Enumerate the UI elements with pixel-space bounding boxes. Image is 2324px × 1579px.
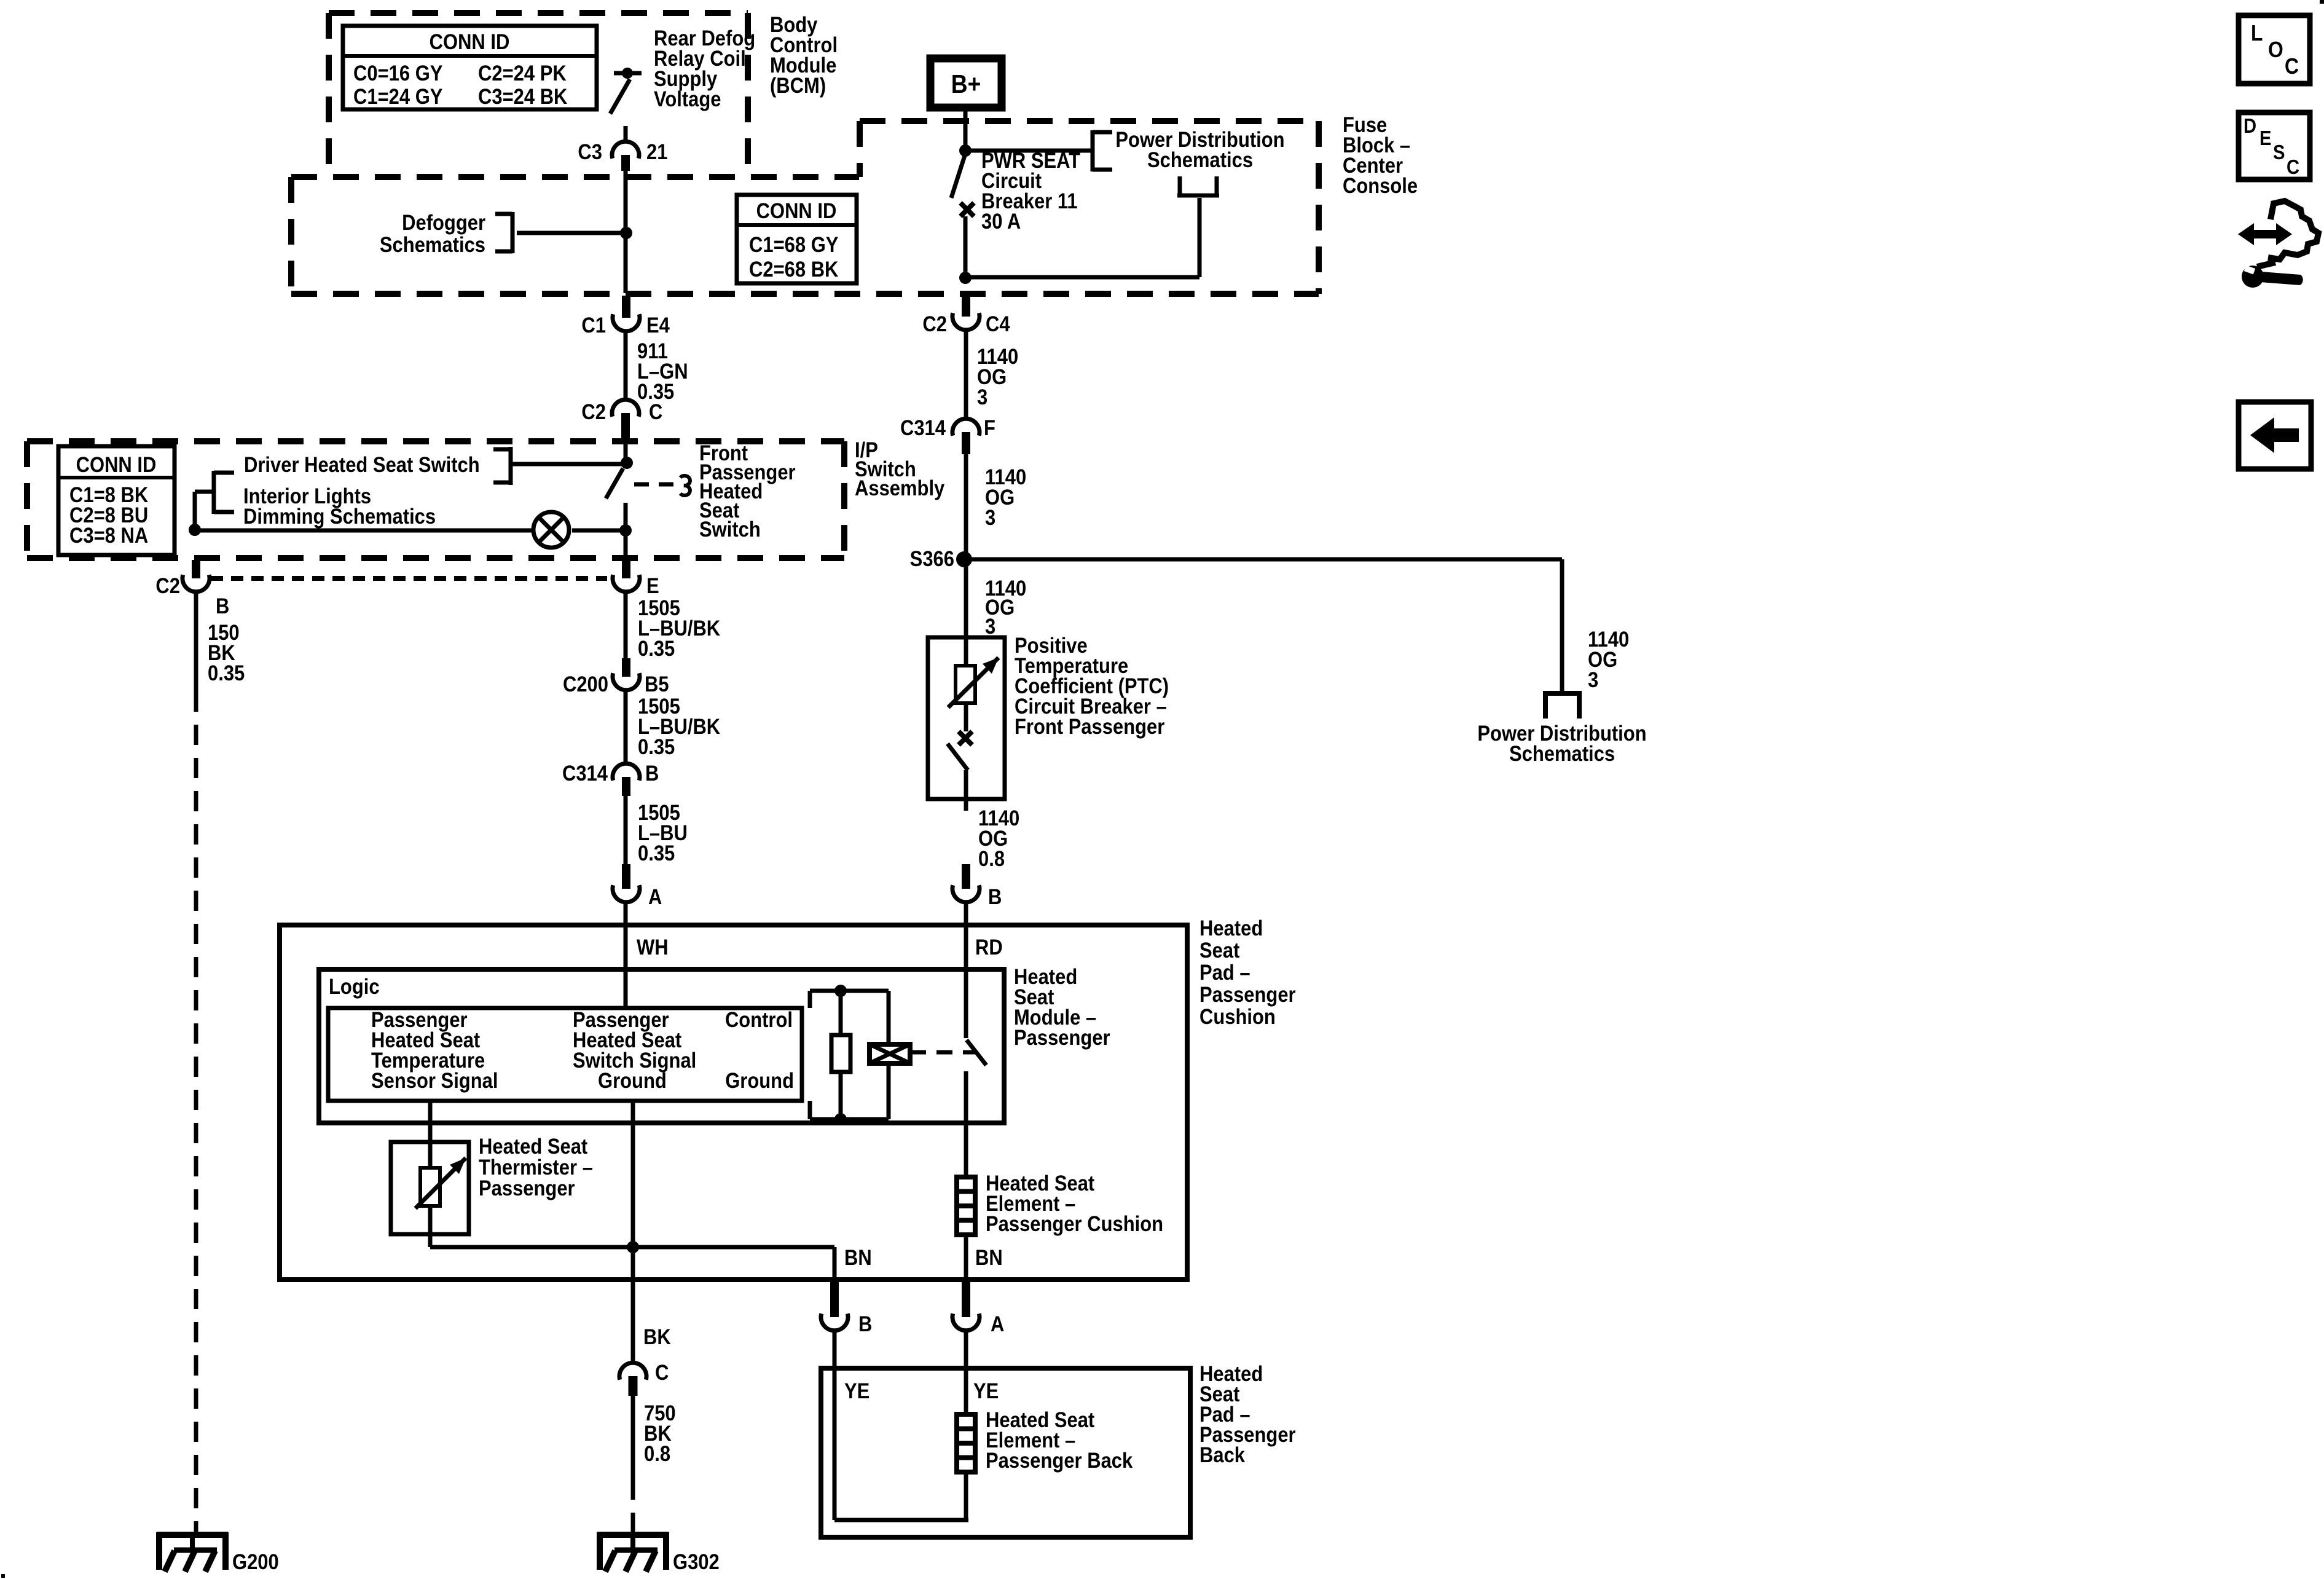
splice S366	[956, 551, 972, 567]
PTC thermistor symbol	[956, 666, 975, 703]
connector C200 pin B5	[622, 658, 630, 677]
wire YE left down	[833, 1369, 837, 1520]
svg-text:Sensor Signal: Sensor Signal	[371, 1069, 498, 1093]
DESC icon box	[2239, 112, 2310, 179]
interior lights dimming bracket	[212, 471, 216, 514]
connector pin B (pad back feed)	[830, 1282, 839, 1317]
heated seat element - passenger cushion	[957, 1177, 975, 1235]
connector C314 pin F	[952, 419, 979, 436]
wire A to pad box	[624, 903, 628, 925]
svg-text:C2=68 BK: C2=68 BK	[749, 258, 839, 282]
connector pin A heated seat module	[622, 864, 630, 889]
svg-text:C1: C1	[581, 313, 606, 337]
svg-text:B: B	[216, 594, 229, 618]
wire B to pad box	[964, 903, 968, 925]
svg-text:G200: G200	[232, 1550, 279, 1574]
svg-text:E: E	[2259, 127, 2271, 149]
heated seat element - passenger back	[957, 1414, 975, 1472]
svg-text:RD: RD	[975, 935, 1003, 959]
wire B down to pad back box	[833, 1331, 837, 1369]
svg-text:3: 3	[985, 506, 995, 530]
connector view icon outline	[2268, 201, 2318, 259]
driver heated seat switch bracket	[509, 447, 513, 485]
wire BN loop to connector B	[633, 1245, 834, 1250]
svg-text:Back: Back	[1199, 1443, 1246, 1467]
connector C2 pin C4 (fuse block)	[962, 296, 970, 317]
wire 1505 first segment	[624, 593, 628, 658]
page corner mark bottom left	[1, 1574, 5, 1578]
svg-text:C2: C2	[922, 312, 947, 336]
svg-text:C2: C2	[581, 400, 606, 424]
svg-text:C: C	[2285, 54, 2299, 79]
dotted harness line C2-to-E	[211, 576, 607, 581]
wire thermistor to ground junction	[430, 1245, 633, 1250]
heated seat thermister box	[391, 1142, 469, 1234]
svg-text:0.8: 0.8	[644, 1442, 670, 1466]
svg-text:CONN ID: CONN ID	[430, 30, 510, 54]
connector C2 pin C	[612, 400, 639, 417]
node resistor-ground	[834, 1113, 847, 1125]
Heated Seat Pad - Passenger Cushion box	[280, 925, 1187, 1280]
svg-text:E: E	[646, 574, 659, 598]
svg-text:C314: C314	[900, 416, 946, 440]
svg-text:G302: G302	[673, 1550, 720, 1574]
node breaker output	[959, 272, 972, 284]
svg-text:D: D	[2244, 114, 2256, 137]
svg-text:C3=24 BK: C3=24 BK	[478, 85, 568, 109]
svg-text:0.35: 0.35	[638, 841, 675, 865]
node thermistor-ground junction	[627, 1241, 639, 1253]
svg-text:O: O	[2268, 37, 2283, 62]
wire sensor signal to thermistor	[428, 1101, 433, 1142]
svg-text:Control: Control	[725, 1008, 793, 1032]
svg-text:C: C	[649, 400, 662, 424]
wire module switch out	[964, 1071, 968, 1177]
B+ battery feed box	[930, 58, 1002, 108]
front passenger heated seat switch blade	[606, 468, 623, 498]
connector pin C ground wire	[631, 1282, 635, 1364]
wire 1505 L-BU	[624, 796, 628, 864]
wire 1140 OG 3 to C314	[964, 331, 968, 417]
wire A down to element back	[964, 1331, 968, 1414]
svg-text:Passenger: Passenger	[1014, 1026, 1110, 1050]
wire bracket to dimmer junction	[195, 490, 214, 494]
CONN ID table - I/P switch	[58, 446, 175, 555]
wire thermistor to contact	[964, 703, 968, 731]
connector view icon wrench	[2242, 266, 2264, 288]
Body Control Module (BCM) dashed box	[329, 10, 748, 16]
svg-text:0.35: 0.35	[208, 661, 245, 685]
wire 1505 second segment	[624, 691, 628, 762]
svg-text:Ground: Ground	[598, 1069, 667, 1093]
wire back loop bottom	[834, 1518, 968, 1522]
ground G200	[157, 1532, 228, 1538]
wire S366 down 1140 OG 3	[964, 559, 968, 637]
power distribution schematics bracket right	[1543, 691, 1582, 696]
BCM / Defogger box shared bottom-top dashed line	[291, 174, 859, 180]
PTC switch blade	[948, 744, 968, 770]
LOC icon box	[2239, 15, 2310, 84]
svg-text:Defogger: Defogger	[402, 211, 485, 235]
svg-text:Cushion: Cushion	[1199, 1005, 1276, 1029]
CONN ID table - BCM C1/C2 68-way	[737, 195, 857, 283]
svg-text:B5: B5	[645, 672, 669, 696]
svg-text:S: S	[2273, 141, 2285, 163]
indicator lamp	[533, 512, 569, 548]
svg-text:C1=68 GY: C1=68 GY	[749, 233, 838, 257]
svg-text:L: L	[2251, 21, 2263, 45]
connector pin A (pad back return)	[962, 1282, 970, 1317]
svg-text:0.35: 0.35	[638, 637, 675, 661]
PTC circuit breaker box	[928, 637, 1005, 799]
Heated Seat Pad - Passenger Back box	[821, 1368, 1190, 1537]
svg-text:0.35: 0.35	[638, 735, 675, 759]
module switch blade	[967, 1040, 986, 1065]
power distribution bracket	[1091, 130, 1095, 171]
svg-text:Passenger Cushion: Passenger Cushion	[986, 1212, 1163, 1236]
svg-text:BN: BN	[975, 1246, 1003, 1270]
svg-text:Pad –: Pad –	[1199, 961, 1250, 985]
wire element to pad bottom	[964, 1235, 968, 1282]
svg-text:C0=16 GY: C0=16 GY	[353, 61, 442, 85]
connector C314 pin B	[613, 763, 640, 781]
wire switch feed from driver bracket	[512, 462, 626, 467]
svg-text:30 A: 30 A	[981, 210, 1021, 234]
relay mechanical link dashes	[910, 1050, 977, 1055]
svg-text:21: 21	[646, 140, 667, 164]
svg-text:Logic: Logic	[329, 975, 380, 999]
svg-text:C200: C200	[563, 672, 608, 696]
svg-text:(BCM): (BCM)	[770, 74, 826, 98]
svg-text:BK: BK	[643, 1325, 671, 1349]
svg-text:CONN ID: CONN ID	[76, 453, 157, 477]
svg-text:C: C	[655, 1361, 669, 1385]
wire control loop top	[808, 991, 812, 1008]
svg-text:C2=24 PK: C2=24 PK	[478, 61, 567, 85]
wire to power distribution bracket	[965, 149, 1091, 153]
svg-text:C3=8 NA: C3=8 NA	[69, 524, 148, 548]
relay resistor	[839, 991, 843, 1035]
svg-text:Console: Console	[1343, 174, 1418, 198]
svg-text:CONN ID: CONN ID	[756, 199, 837, 223]
svg-text:Dimming Schematics: Dimming Schematics	[243, 505, 436, 529]
svg-text:BN: BN	[844, 1246, 872, 1270]
Heated Seat Module logic box	[319, 969, 1004, 1123]
connector view icon arrow	[2238, 223, 2292, 245]
wire WH into logic	[624, 925, 628, 1008]
node switch pivot	[621, 457, 633, 469]
wire to defogger schematics	[517, 231, 624, 235]
svg-text:3: 3	[977, 385, 987, 409]
wire junction to C1	[624, 233, 628, 293]
svg-text:YE: YE	[973, 1379, 999, 1403]
svg-text:B: B	[645, 762, 659, 786]
heated seat thermister symbol	[428, 1142, 433, 1168]
back arrow icon box	[2239, 402, 2311, 469]
connector pin E (I/P bottom)	[622, 560, 630, 578]
svg-text:Front Passenger: Front Passenger	[1015, 715, 1164, 739]
node dimmer junction	[189, 524, 201, 536]
wire to connector E	[624, 530, 628, 556]
svg-text:Switch: Switch	[699, 518, 761, 541]
svg-text:S366: S366	[910, 547, 954, 571]
svg-text:E4: E4	[646, 313, 670, 337]
wire dimmer to lamp	[197, 529, 534, 533]
svg-text:A: A	[648, 885, 662, 909]
Defogger and Fuse block shared bottom dashed line	[291, 291, 1319, 297]
mechanical link pointer	[680, 476, 690, 495]
svg-text:Seat: Seat	[1199, 939, 1239, 963]
wire PTC out	[964, 770, 968, 811]
wire element back to loop	[964, 1472, 968, 1520]
svg-text:Voltage: Voltage	[654, 87, 721, 111]
wire S366 branch right	[964, 557, 1562, 562]
wire breaker output loop	[965, 275, 1199, 280]
svg-text:Schematics: Schematics	[1147, 148, 1253, 172]
wire 750 BK dashed	[631, 1479, 635, 1535]
svg-text:Assembly: Assembly	[855, 476, 945, 500]
PWR SEAT circuit breaker 11 switch	[951, 154, 965, 198]
svg-text:3: 3	[1588, 668, 1598, 692]
wire B+ to breaker	[964, 108, 968, 151]
svg-text:A: A	[991, 1312, 1004, 1336]
mechanical link dashes	[634, 482, 676, 487]
svg-text:B+: B+	[951, 70, 981, 99]
svg-text:C3: C3	[578, 140, 602, 164]
wire heated seat switch feed	[624, 441, 628, 459]
svg-text:YE: YE	[844, 1379, 870, 1403]
wire RD into module	[964, 925, 968, 1038]
node defogger junction	[620, 227, 632, 239]
svg-text:F: F	[984, 416, 995, 440]
connector C3 pin 21 (BCM)	[612, 141, 639, 159]
wire 150 BK dashed to G200	[194, 691, 198, 1535]
CONN ID table - BCM connectors	[343, 26, 597, 109]
svg-text:Driver Heated Seat Switch: Driver Heated Seat Switch	[244, 453, 480, 477]
Fuse Block - Center Console dashed box	[860, 118, 1319, 124]
wire 150 BK solid part	[194, 593, 198, 691]
power distribution return bracket	[1178, 176, 1182, 195]
Defogger section dashed box left edge	[288, 177, 294, 294]
wire BCM switch to C3	[624, 126, 628, 141]
svg-text:Ground: Ground	[725, 1069, 794, 1093]
node breaker feed	[959, 144, 972, 157]
svg-text:C1=24 GY: C1=24 GY	[353, 85, 442, 109]
svg-text:Passenger: Passenger	[1199, 983, 1296, 1007]
svg-text:0.8: 0.8	[978, 847, 1005, 871]
svg-text:Heated: Heated	[1199, 916, 1263, 940]
defogger schematics bracket	[511, 212, 515, 253]
page corner mark top right	[2320, 0, 2324, 4]
wire ground loop bottom	[810, 1117, 889, 1122]
I/P Switch Assembly dashed box	[27, 438, 844, 444]
wire switch to lamp junction	[624, 503, 628, 530]
connector C1 pin E4	[622, 296, 630, 318]
svg-text:WH: WH	[637, 935, 669, 959]
relay solenoid coil	[887, 991, 891, 1044]
node control-resistor	[834, 985, 847, 997]
svg-text:C: C	[2287, 156, 2299, 178]
ground G302	[597, 1532, 669, 1538]
svg-text:B: B	[858, 1312, 872, 1336]
wire switch signal ground down	[631, 1101, 635, 1280]
svg-text:B: B	[988, 885, 1002, 909]
svg-text:C2: C2	[155, 574, 180, 598]
wire into PTC	[964, 637, 968, 667]
svg-text:C314: C314	[562, 762, 608, 786]
rear defog relay coil supply switch	[614, 71, 642, 76]
svg-text:Schematics: Schematics	[1509, 742, 1615, 766]
connector pin B heated seat module feed	[962, 864, 970, 889]
logic signals box	[328, 1008, 802, 1101]
svg-text:C4: C4	[986, 312, 1010, 336]
svg-text:Passenger: Passenger	[479, 1176, 575, 1200]
wire 911 L-GN	[624, 332, 628, 399]
wire C314 to S366	[964, 454, 968, 559]
node lamp junction	[619, 524, 632, 537]
PTC contact x	[959, 731, 972, 745]
svg-text:Passenger Back: Passenger Back	[986, 1449, 1133, 1473]
wire 750 BK solid	[631, 1396, 635, 1479]
connector C2 pin B (I/P left)	[192, 560, 200, 578]
svg-text:Schematics: Schematics	[380, 233, 485, 257]
